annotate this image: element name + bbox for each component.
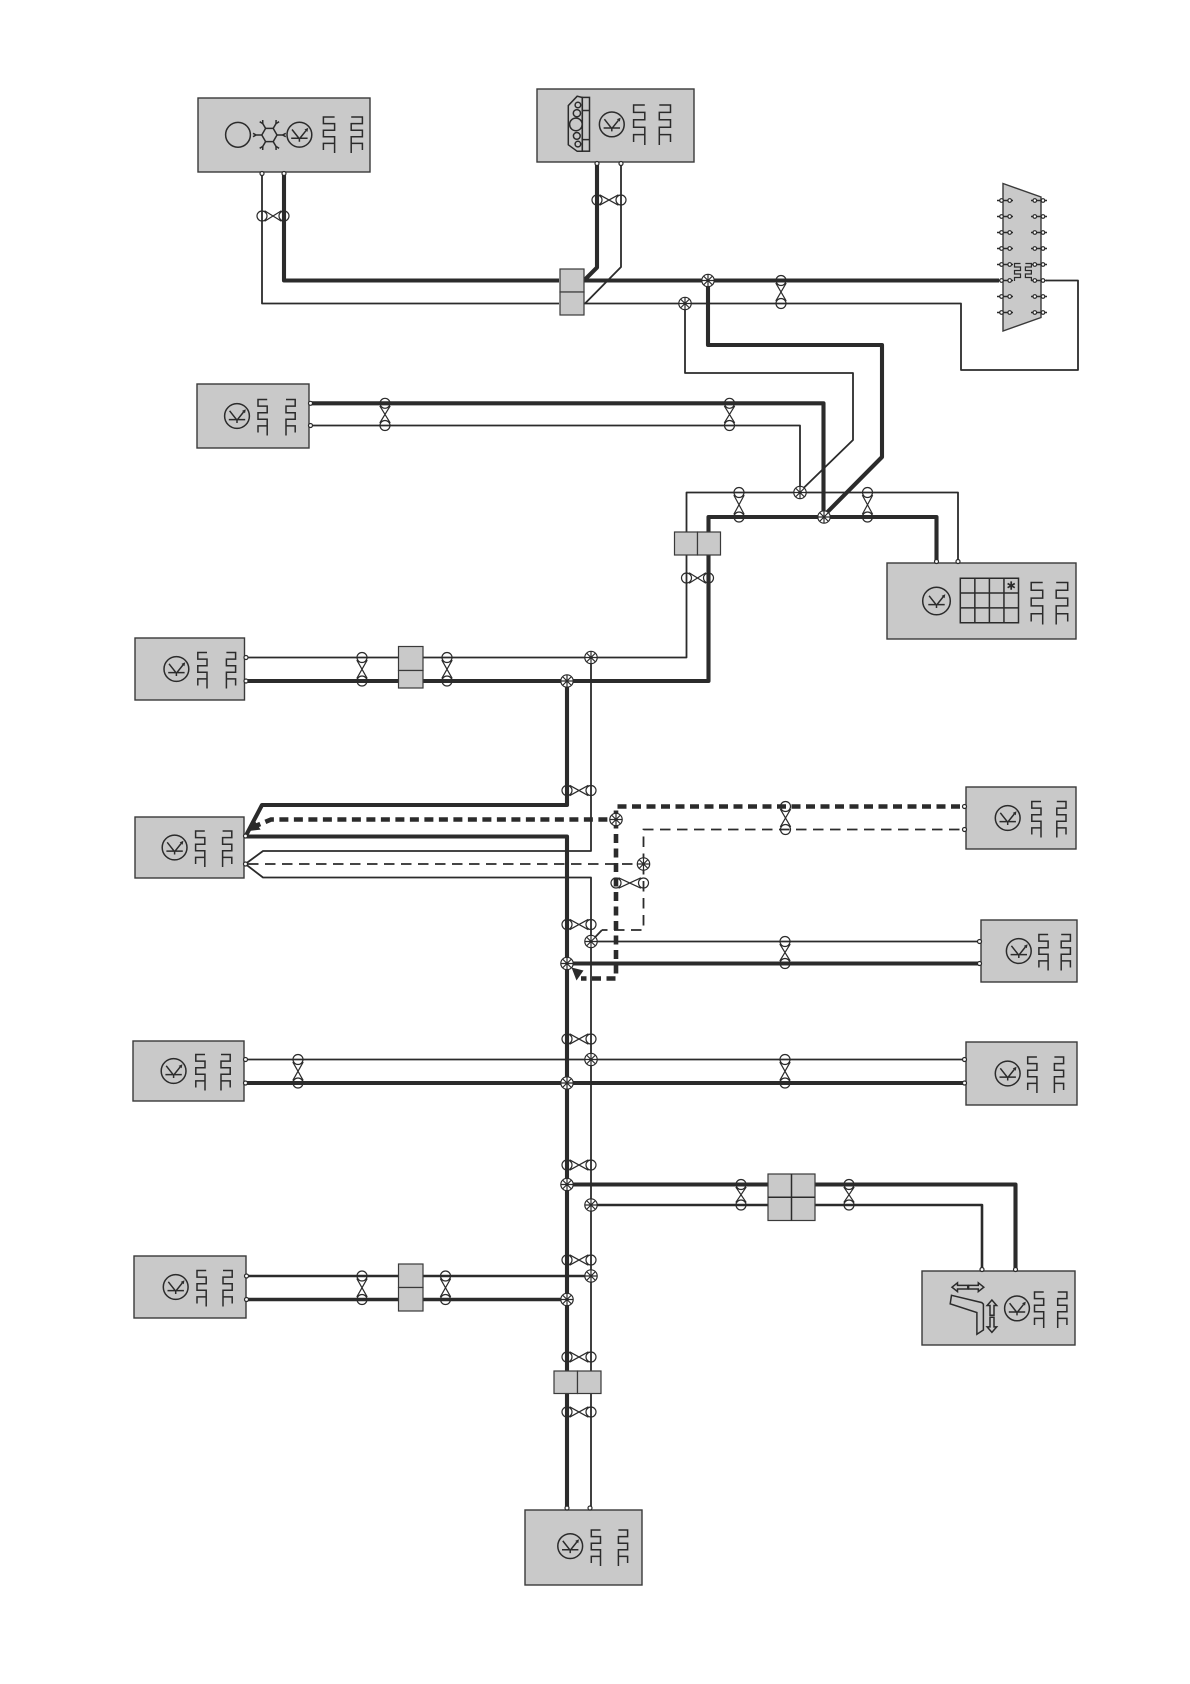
inline connector C2 right half (CAN-H) <box>698 532 721 555</box>
pin module B CAN-H <box>595 162 599 166</box>
pin module L CAN-H <box>245 1298 249 1302</box>
wire CAN-H node J8 to module I (thick) <box>567 961 980 965</box>
node J5 (CAN-L module F row) <box>585 651 597 663</box>
twisted pair symbol on C4 row right of block <box>844 1180 854 1211</box>
twisted pair symbol on main bus above module G <box>562 785 596 795</box>
module E (rear window defogger / grid module) <box>887 563 1076 639</box>
pin module G pin 2 <box>244 862 248 866</box>
data link connector (16-pin DLC) <box>997 184 1047 332</box>
module J (gauge module) <box>133 1041 244 1101</box>
pin module K CAN-H <box>963 1081 967 1085</box>
pin module N CAN-H <box>565 1506 569 1510</box>
twisted pair symbol below connector C2 <box>682 573 714 583</box>
twisted pair symbol on module D pair near box <box>380 398 390 430</box>
arrowhead of dashed CAN-H at module G pin 1 <box>249 822 261 831</box>
twisted pair symbol on module F pair right <box>442 653 452 687</box>
wire CAN-H module J to node J10 and on to module K (thick) <box>246 1081 964 1085</box>
twisted pair symbol on main bus below connector C6 <box>562 1407 596 1417</box>
inline connector C1 lower half (CAN-L) <box>560 292 584 315</box>
inline connector C3 lower half (thick pair of module F) <box>399 671 424 689</box>
wire CAN-L mid bus to module E (thin) <box>687 493 959 562</box>
node J12 (CAN-H connector C4 row) <box>561 1178 573 1190</box>
module D (gauge module) <box>197 384 309 448</box>
wire CAN-H from connector C2 down then left to module F (thick) <box>248 554 709 681</box>
node J8 (CAN-H module I row) <box>561 957 573 969</box>
twisted pair symbol on mid bus left <box>734 488 744 523</box>
wire CAN-H node J12 right through connector C4 to module M (thick) <box>567 1185 1016 1270</box>
node J9 (CAN-L module J/K row) <box>585 1053 597 1065</box>
wire CAN-L node J11 right through connector C4 to module M (medium) <box>591 1205 982 1269</box>
node J3 (CAN-L mid bus) <box>794 486 806 498</box>
inline connector C4 quad block <box>768 1174 815 1221</box>
twisted pair symbol under module A <box>257 211 289 221</box>
node JD2 (dashed CAN-L) <box>637 858 649 870</box>
node J4 (CAN-H mid bus) <box>818 511 830 523</box>
twisted pair symbol on C4 row left of block <box>736 1180 746 1211</box>
wire dashed CAN-H node JD1 stub up and right to module H (bold dashed) <box>616 807 962 820</box>
node JD1 (dashed CAN-H) <box>610 813 622 825</box>
inline connector C1 upper half (CAN-H) <box>560 269 584 292</box>
pin module A CAN-H <box>282 172 286 176</box>
wire CAN-H from module D to node J4 (thick) <box>311 403 824 515</box>
pin module A CAN-L <box>260 172 264 176</box>
wire CAN-L module J to node J9 and on to module K (thin) <box>246 1059 964 1061</box>
wire dashed CAN-L node JD2 down, left to node J7 (thin dashed) <box>602 864 644 930</box>
wire dashed CAN-H node JD1 down, left, arrow into node J8 (bold dashed) <box>581 820 616 979</box>
module G (gauge module, inline on bus) <box>135 817 244 878</box>
wire CAN-L main bus node J5 down, left into module G pin 2 (thin) <box>246 658 591 864</box>
twisted pair symbol on dashed verticals <box>611 878 649 888</box>
module B (engine control module) <box>537 89 694 162</box>
pin module F CAN-H <box>244 679 248 683</box>
node J6 (CAN-H module F row) <box>561 675 573 687</box>
node J11 (CAN-L connector C4 row) <box>585 1199 597 1211</box>
wire CAN-L node J7 to module I (thin) <box>591 941 980 943</box>
wire CAN-H branch node J1 to node J4 (thick) <box>708 281 882 516</box>
node J10 (CAN-H module J/K row) <box>561 1077 573 1089</box>
pin module L CAN-L <box>245 1274 249 1278</box>
twisted pair symbol on main bus above connector C6 <box>562 1352 596 1362</box>
wire CAN-L main bus out of module G pin 2 down to module N (thin) <box>246 865 591 1508</box>
pin module E CAN-L <box>956 560 960 564</box>
twisted pair symbol on module F pair left <box>357 653 367 687</box>
wire dashed CAN-L from module G pin 2 to node JD2 (thin dashed) <box>248 863 644 865</box>
wire CAN-H main bus out of module G pin 1 down to module N (thick) <box>246 837 567 1508</box>
module H (gauge module, dashed pair) <box>966 787 1076 849</box>
wire CAN-L bus from connector C1 looping to DLC right pin 6 (thin) <box>584 281 1078 371</box>
node J1 (CAN-H top bus) <box>702 274 714 286</box>
pin module J CAN-L <box>244 1058 248 1062</box>
wire CAN-L from module A (thin) down and right to inline connector C1 <box>262 172 559 304</box>
twisted pair symbol on module J pair <box>293 1055 303 1089</box>
wire CAN-H main bus node J6 down, left into module G pin 1 (thick) <box>246 681 567 836</box>
module A (instrument cluster with lamp and A/C telltale) <box>198 98 370 172</box>
pin module I CAN-L <box>978 940 982 944</box>
node J14 (CAN-H module L row) <box>561 1293 573 1305</box>
node J13 (CAN-L module L row) <box>585 1270 597 1282</box>
pin module F CAN-L <box>244 656 248 660</box>
pin module N CAN-L <box>588 1506 592 1510</box>
wire CAN-H from module A (thick) down and right to inline connector C1 <box>284 172 559 281</box>
module K (gauge module) <box>966 1042 1077 1105</box>
twisted pair symbol on top bus <box>776 276 786 309</box>
twisted pair symbol on mid bus right <box>862 488 872 523</box>
inline connector C3 upper half (thin pair of module F) <box>399 647 424 671</box>
twisted pair symbol on module L pair left <box>357 1271 367 1305</box>
twisted pair symbol on module L pair right <box>440 1271 450 1305</box>
wire CAN-H from module B (thick) down into inline connector C1 <box>584 163 597 281</box>
pin module H dashed CAN-H <box>963 805 967 809</box>
wire dashed CAN-L node JD2 stub up and right to module H (thin dashed) <box>644 830 963 865</box>
pin module J CAN-H <box>244 1081 248 1085</box>
wire CAN-L module L to node J13 (medium) <box>248 1275 591 1278</box>
twisted pair symbol on main bus below module G <box>562 919 596 929</box>
twisted pair symbol on main bus above row J/K <box>562 1034 596 1044</box>
pin module G pin 1 <box>244 834 248 838</box>
twisted pair symbol on module I pair <box>780 937 790 969</box>
wire CAN-H module L to node J14 (medium-thick) <box>248 1298 567 1301</box>
pin module E CAN-H <box>935 560 939 564</box>
pin module I CAN-H <box>978 962 982 966</box>
wire CAN-L from connector C2 down then left to module F (thin) <box>248 554 687 658</box>
twisted pair symbol under module B <box>592 195 626 205</box>
wire CAN-L from module D to node J3 (thin) <box>311 426 800 491</box>
wire CAN-H bus from connector C1 to DLC left pin 6 (thick) <box>584 278 999 282</box>
twisted pair symbol on main bus above row C4 <box>562 1160 596 1170</box>
pin module D CAN-L <box>309 424 313 428</box>
pin module M CAN-L <box>980 1268 984 1272</box>
inline connector C6 left half (main bus thick) <box>554 1371 578 1394</box>
wire dashed CAN-L short diagonal into node J7 (thin) <box>591 930 602 942</box>
inline connector C5 lower half (module L thick) <box>399 1288 424 1312</box>
pin module D CAN-H <box>309 401 313 405</box>
module L (gauge module) <box>134 1256 246 1318</box>
module F (gauge module) <box>135 638 245 700</box>
arrowhead of dashed CAN-H at node J8 <box>572 968 584 981</box>
module I (gauge module) <box>981 920 1077 982</box>
node J2 (CAN-L top bus) <box>679 297 691 309</box>
pin module H dashed CAN-L <box>963 828 967 832</box>
inline connector C5 upper half (module L thin) <box>399 1264 424 1288</box>
node J7 (CAN-L module I row) <box>585 935 597 947</box>
twisted pair symbol on module D pair right <box>724 398 734 430</box>
twisted pair symbol on dashed pair to module H <box>780 802 790 835</box>
inline connector C6 right half (main bus thin) <box>578 1371 602 1394</box>
twisted pair symbol on main bus above module L row <box>562 1255 596 1265</box>
pin module B CAN-L <box>619 162 623 166</box>
twisted pair symbol on module K pair <box>780 1055 790 1089</box>
wire CAN-L from module B (thin) down into inline connector C1 <box>585 163 621 304</box>
inline connector C2 left half (CAN-L) <box>675 532 698 555</box>
pin module K CAN-L <box>963 1058 967 1062</box>
wire dashed CAN-H from module G pin 1 up-right to node JD1 (bold dashed) <box>252 820 616 828</box>
pin module M CAN-H <box>1014 1268 1018 1272</box>
module M (adjustable pedal / memory seat module) <box>922 1271 1075 1345</box>
module N (gauge module, bus terminator) <box>525 1510 642 1585</box>
wire CAN-H mid bus to module E (thick) <box>709 517 937 561</box>
wire CAN-L branch node J2 to node J3 (thin) <box>685 304 853 492</box>
